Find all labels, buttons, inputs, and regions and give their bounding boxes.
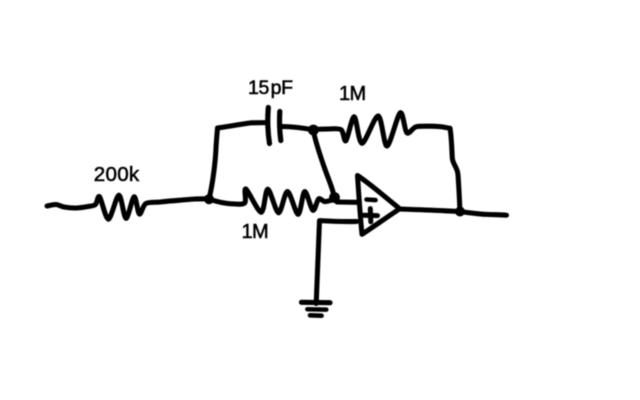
svg-text:200k: 200k [94, 163, 140, 186]
svg-text:1M: 1M [339, 83, 366, 105]
svg-text:1M: 1M [242, 221, 269, 243]
svg-text:15pF: 15pF [248, 77, 293, 99]
